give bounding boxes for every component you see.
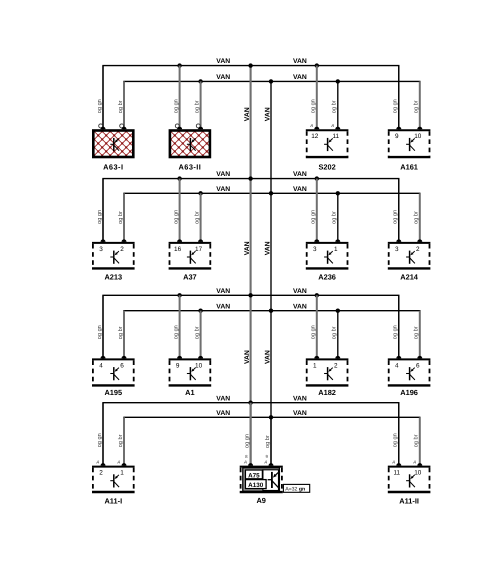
svg-text:A: A: [116, 459, 120, 464]
pin bump A182 left: [314, 356, 319, 359]
svg-text:og br: og br: [413, 434, 420, 447]
wire A196 pin stub right (og br): [419, 311, 421, 359]
svg-text:3: 3: [395, 246, 399, 253]
wire A37 pin stub left (og gn): [179, 179, 181, 242]
box S202 (dashed ECU box): [306, 129, 349, 131]
junction row3 upper x179: [177, 293, 181, 297]
connector circle A63-I right pin: [120, 124, 124, 128]
net label VAN (row3 lower): [293, 303, 307, 310]
box A11-II (dashed ECU box): [388, 466, 431, 468]
svg-text:og br: og br: [413, 326, 420, 339]
net label VAN (row4 lower): [293, 410, 307, 417]
svg-text:VAN: VAN: [216, 395, 230, 402]
svg-text:og gn: og gn: [173, 325, 179, 339]
svg-text:og gn: og gn: [97, 433, 103, 447]
ECU interface icon (A196): [406, 367, 415, 380]
svg-text:og br: og br: [413, 100, 420, 113]
wire A11-II pin stub left (og gn): [398, 403, 400, 466]
pin bump A195 right: [122, 356, 127, 359]
net label VAN (row1 lower): [293, 74, 307, 81]
ECU interface icon (A11-I): [110, 474, 119, 487]
svg-text:9: 9: [176, 362, 180, 369]
pin bump A9 left: [248, 463, 253, 466]
svg-text:A: A: [263, 459, 267, 464]
junction row1 upper x250: [248, 63, 252, 67]
svg-text:A196: A196: [400, 388, 418, 397]
pin bump A161 left: [396, 127, 401, 130]
svg-text:og br: og br: [413, 211, 420, 224]
component A1: [169, 295, 212, 397]
wire A195 pin stub left (og gn): [102, 295, 104, 358]
sub-box A75: [245, 470, 262, 479]
component A37: [169, 179, 212, 282]
box A182 (dashed ECU box): [306, 358, 349, 360]
ECU interface icon (A63-II): [187, 138, 196, 151]
pin bump A1 right: [198, 356, 203, 359]
junction row3 upper x316: [315, 293, 319, 297]
wire S202 pin stub right (og br): [337, 81, 339, 129]
value label A=32 gn: [283, 484, 309, 492]
svg-text:S202: S202: [318, 162, 335, 171]
svg-text:VAN: VAN: [293, 410, 307, 417]
box A161 (dashed ECU box): [388, 129, 431, 131]
svg-text:og br: og br: [193, 211, 200, 224]
svg-text:VAN: VAN: [216, 303, 230, 310]
svg-text:og br: og br: [117, 211, 124, 224]
wire VAN row1 lower line: [124, 81, 420, 129]
net label VAN (row3 upper): [216, 288, 230, 295]
component A195: [92, 295, 135, 397]
svg-text:A: A: [391, 459, 395, 464]
connector circle A63-II right pin: [196, 124, 200, 128]
wire A11-I pin stub right (og br): [123, 417, 125, 465]
svg-text:og gn: og gn: [311, 210, 317, 224]
pin bump A9 right: [269, 463, 274, 466]
ECU interface icon (A213): [110, 251, 119, 264]
svg-text:4: 4: [395, 362, 399, 369]
junction row3 upper x250: [248, 293, 252, 297]
svg-text:A: A: [95, 459, 99, 464]
svg-text:A236: A236: [318, 273, 336, 282]
svg-text:A: A: [330, 123, 334, 128]
svg-text:A: A: [243, 459, 247, 464]
svg-text:og gn: og gn: [311, 99, 317, 113]
svg-text:11: 11: [393, 470, 400, 477]
svg-text:og br: og br: [117, 326, 124, 339]
component A9 (BSI with A75 / A130): [240, 403, 310, 506]
pin bump A11-II left: [396, 463, 401, 466]
ECU interface icon (A9): [268, 472, 279, 488]
svg-text:VAN: VAN: [216, 288, 230, 295]
wire A182 pin stub left (og gn): [316, 295, 318, 358]
svg-text:og gn: og gn: [97, 210, 103, 224]
net label VAN (left bus, rotated): [244, 107, 251, 121]
svg-text:og br: og br: [193, 326, 200, 339]
net label VAN (row3 upper): [293, 288, 307, 295]
pin bump A182 right: [335, 356, 340, 359]
junction row1 lower x337: [336, 79, 340, 83]
wire A9 pin stub right (og br, from right bus): [270, 417, 272, 465]
svg-text:og br: og br: [331, 100, 338, 113]
svg-text:10: 10: [414, 133, 422, 140]
box A1 (dashed ECU box): [169, 358, 212, 360]
net label VAN (left bus, rotated): [244, 350, 251, 364]
net label VAN (left bus, rotated): [244, 241, 251, 255]
pin bump A63-II left: [177, 127, 182, 130]
svg-text:og gn: og gn: [244, 434, 250, 448]
net label VAN (row4 lower): [216, 410, 230, 417]
svg-text:3: 3: [313, 246, 317, 253]
junction row1 upper x179: [177, 63, 181, 67]
svg-text:A: A: [412, 459, 416, 464]
wire A213 pin stub right (og br): [123, 193, 125, 242]
svg-text:6: 6: [120, 362, 124, 369]
svg-text:11: 11: [332, 133, 339, 140]
pin bump A236 left: [314, 239, 319, 241]
wire A1 pin stub left (og gn): [179, 295, 181, 358]
connector circle A63-I left pin: [99, 124, 103, 128]
svg-text:4: 4: [99, 362, 103, 369]
junction row1 lower x200: [198, 79, 202, 83]
wire A182 pin stub right (og br): [337, 311, 339, 359]
pin bump A63-I right: [122, 127, 127, 130]
ECU interface icon (A37): [187, 251, 196, 264]
svg-text:VAN: VAN: [265, 107, 272, 121]
pin bump A11-I right: [122, 463, 127, 466]
wire A63-II pin stub left (og gn): [179, 66, 181, 130]
svg-text:A182: A182: [318, 388, 336, 397]
bus wire VAN vertical left: [250, 66, 252, 466]
component A63-II: [123, 66, 251, 172]
wire A196 pin stub left (og gn): [398, 295, 400, 358]
junction row3 lower x337: [336, 309, 340, 313]
junction row2 upper x316: [315, 176, 319, 180]
net label VAN (row1 upper): [216, 58, 230, 65]
junction row2 lower x337: [336, 191, 340, 195]
wire A195 pin stub right (og br): [123, 311, 125, 359]
net label VAN (row1 lower): [216, 74, 230, 81]
wire A1 pin stub right (og br): [200, 311, 202, 359]
svg-text:VAN: VAN: [216, 74, 230, 81]
svg-text:og br: og br: [193, 100, 200, 113]
junction row3 lower x271: [269, 309, 273, 313]
ECU interface icon (A182): [324, 367, 333, 380]
svg-text:A63-I: A63-I: [103, 162, 123, 171]
ECU interface icon (A63-I): [110, 138, 119, 151]
net label VAN (right bus, rotated): [265, 350, 272, 364]
svg-text:VAN: VAN: [216, 410, 230, 417]
wire A63-I pin stub left (og gn): [102, 66, 104, 130]
pin bump S202 right: [335, 127, 340, 130]
box A196 (dashed ECU box): [388, 358, 431, 360]
junction row4 upper bus: [248, 401, 252, 405]
sub-box A130: [245, 480, 266, 489]
component A213: [92, 179, 135, 282]
svg-text:og gn: og gn: [97, 99, 103, 113]
svg-text:VAN: VAN: [293, 395, 307, 402]
svg-text:VAN: VAN: [293, 186, 307, 193]
svg-text:1: 1: [120, 470, 124, 477]
wire A214 pin stub right (og br): [419, 193, 421, 242]
svg-text:A: A: [309, 123, 313, 128]
net label VAN (row4 upper): [293, 395, 307, 402]
svg-text:2: 2: [416, 246, 420, 253]
wire A37 pin stub right (og br): [200, 193, 202, 242]
junction row2 upper x179: [177, 176, 181, 180]
svg-text:VAN: VAN: [265, 350, 272, 364]
wire A63-I pin stub right (og br): [123, 81, 125, 129]
pin bump A214 left: [396, 239, 401, 241]
pin bump A161 right: [417, 127, 422, 130]
svg-text:VAN: VAN: [265, 241, 272, 255]
A9 icon panel: [263, 470, 279, 491]
wire S202 pin stub left (og gn): [316, 66, 318, 130]
box A9 outer dashed: [240, 466, 283, 468]
junction row2 lower x271: [269, 191, 273, 195]
wire VAN row1 upper line: [103, 66, 399, 130]
svg-text:A=32 gn: A=32 gn: [285, 486, 305, 492]
box A236 (dashed ECU box): [306, 242, 349, 244]
svg-text:3: 3: [99, 246, 103, 253]
svg-text:og gn: og gn: [173, 99, 179, 113]
component A196: [388, 295, 431, 397]
svg-text:A75: A75: [248, 472, 260, 479]
svg-text:VAN: VAN: [293, 58, 307, 65]
pin bump A195 left: [101, 356, 106, 359]
wire A236 pin stub left (og gn): [316, 179, 318, 242]
pin bump A196 right: [417, 356, 422, 359]
svg-text:VAN: VAN: [244, 107, 251, 121]
svg-text:og gn: og gn: [97, 325, 103, 339]
svg-text:A130: A130: [248, 482, 264, 489]
svg-text:12: 12: [311, 133, 319, 140]
ECU interface icon (A11-II): [406, 474, 415, 487]
box A37 (dashed ECU box): [169, 242, 212, 244]
svg-text:17: 17: [195, 246, 203, 253]
svg-text:VAN: VAN: [216, 186, 230, 193]
pin bump A11-II right: [417, 463, 422, 466]
ECU interface icon (A1): [187, 367, 196, 380]
wire A63-II pin stub right (og br): [200, 81, 202, 129]
ECU interface icon (S202): [324, 138, 333, 151]
pin bump S202 left: [314, 127, 319, 130]
pin bump A37 right: [198, 239, 203, 241]
svg-text:A63-II: A63-II: [178, 162, 201, 171]
component A11-I: [92, 403, 135, 506]
junction row2 upper x250: [248, 176, 252, 180]
box A214 (dashed ECU box): [388, 242, 431, 244]
wire A213 pin stub left (og gn): [102, 179, 104, 242]
svg-text:og gn: og gn: [393, 433, 399, 447]
wire VAN row2 lower line: [124, 193, 420, 242]
svg-text:A195: A195: [104, 388, 122, 397]
wire VAN row4 lower line: [124, 417, 420, 465]
junction row1 lower x271: [269, 79, 273, 83]
svg-text:og br: og br: [117, 100, 124, 113]
component A214: [388, 179, 431, 282]
box A11-I (dashed ECU box): [92, 466, 135, 468]
pin bump A213 right: [122, 239, 127, 241]
pin bump A37 left: [177, 239, 182, 241]
junction row3 lower x200: [198, 309, 202, 313]
svg-text:og br: og br: [331, 211, 338, 224]
svg-text:og gn: og gn: [393, 99, 399, 113]
svg-text:9: 9: [395, 133, 399, 140]
svg-text:VAN: VAN: [216, 58, 230, 65]
svg-text:2: 2: [99, 470, 103, 477]
svg-text:VAN: VAN: [244, 241, 251, 255]
net label VAN (right bus, rotated): [265, 107, 272, 121]
svg-text:og gn: og gn: [173, 210, 179, 224]
svg-text:1: 1: [334, 246, 338, 253]
svg-text:og br: og br: [117, 434, 124, 447]
svg-text:A11-I: A11-I: [104, 496, 122, 505]
component A161: [388, 66, 431, 172]
svg-text:og gn: og gn: [311, 325, 317, 339]
svg-text:2: 2: [334, 362, 338, 369]
pin bump A63-I left: [101, 127, 106, 130]
component S202: [306, 66, 349, 172]
pin bump A213 left: [101, 239, 106, 241]
pin bump A1 left: [177, 356, 182, 359]
wire VAN row3 upper line: [103, 295, 399, 358]
svg-text:2: 2: [120, 246, 124, 253]
ECU interface icon (A236): [324, 251, 333, 264]
svg-text:VAN: VAN: [293, 74, 307, 81]
wire A214 pin stub left (og gn): [398, 179, 400, 242]
ECU interface icon (A161): [406, 138, 415, 151]
wire A236 pin stub right (og br): [337, 193, 339, 242]
box A213 (dashed ECU box): [92, 242, 135, 244]
ECU interface icon (A214): [406, 251, 415, 264]
svg-text:VAN: VAN: [293, 171, 307, 178]
junction row1 upper x316: [315, 63, 319, 67]
component A182: [306, 295, 349, 397]
ECU interface icon (A195): [110, 367, 119, 380]
svg-text:10: 10: [195, 362, 203, 369]
svg-text:A214: A214: [400, 273, 419, 282]
svg-text:A9: A9: [256, 496, 265, 505]
wire A11-I pin stub left (og gn): [102, 403, 104, 466]
svg-text:og br: og br: [331, 326, 338, 339]
svg-text:A11-II: A11-II: [399, 496, 419, 505]
net label VAN (row4 upper): [216, 395, 230, 402]
wire A161 pin stub left (og gn): [398, 66, 400, 130]
svg-text:og gn: og gn: [393, 210, 399, 224]
connector circle A63-II left pin: [175, 124, 179, 128]
net label VAN (row3 lower): [216, 303, 230, 310]
svg-text:A1: A1: [185, 388, 194, 397]
bus wire VAN vertical right: [270, 81, 272, 465]
svg-text:1: 1: [313, 362, 317, 369]
wire VAN row4 upper line: [103, 403, 399, 466]
svg-text:A161: A161: [400, 162, 418, 171]
wire A11-II pin stub right (og br): [419, 417, 421, 465]
wire A9 pin stub left (og gn, from left bus): [250, 403, 252, 466]
net label VAN (row2 upper): [216, 171, 230, 178]
wire A161 pin stub right (og br): [419, 81, 421, 129]
svg-text:A213: A213: [104, 273, 122, 282]
net label VAN (row2 lower): [216, 186, 230, 193]
junction row4 lower bus: [269, 415, 273, 419]
svg-text:16: 16: [174, 246, 182, 253]
svg-text:10: 10: [414, 470, 422, 477]
pin bump A196 left: [396, 356, 401, 359]
svg-text:VAN: VAN: [293, 288, 307, 295]
component A63-I: [46, 66, 174, 172]
svg-text:VAN: VAN: [293, 303, 307, 310]
svg-text:VAN: VAN: [244, 350, 251, 364]
junction row2 lower x200: [198, 191, 202, 195]
net label VAN (row2 upper): [293, 171, 307, 178]
svg-text:og gn: og gn: [393, 325, 399, 339]
box A195 (dashed ECU box): [92, 358, 135, 360]
net label VAN (row1 upper): [293, 58, 307, 65]
svg-text:VAN: VAN: [216, 171, 230, 178]
net label VAN (right bus, rotated): [265, 241, 272, 255]
component A236: [306, 179, 349, 282]
svg-text:A37: A37: [183, 273, 197, 282]
wire VAN row2 upper line: [103, 179, 399, 242]
component A11-II: [388, 403, 431, 506]
box A9 inner module (grey frame): [243, 468, 280, 491]
net label VAN (row2 lower): [293, 186, 307, 193]
svg-text:6: 6: [416, 362, 420, 369]
pin bump A236 right: [335, 239, 340, 241]
wire VAN row3 lower line: [124, 311, 420, 359]
pin bump A214 right: [417, 239, 422, 241]
svg-text:og br: og br: [264, 435, 271, 448]
pin bump A63-II right: [198, 127, 203, 130]
pin bump A11-I left: [101, 463, 106, 466]
